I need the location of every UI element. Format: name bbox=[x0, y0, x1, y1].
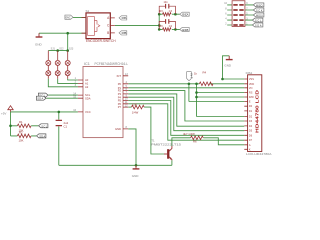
svg-text:K: K bbox=[249, 148, 251, 151]
resistor R7 10K (SCL pullup) bbox=[17, 120, 31, 132]
svg-text:D7: D7 bbox=[249, 139, 253, 142]
svg-text:ROTA: ROTA bbox=[122, 17, 127, 20]
wire encoder lower-left to GND rail bbox=[39, 32, 86, 34]
svg-text:10K: 10K bbox=[19, 139, 24, 143]
wire P4 to LCD D6 bbox=[128, 97, 244, 131]
junction RC1 left bbox=[158, 13, 161, 16]
junction jumper rail col2 bbox=[56, 49, 59, 52]
svg-text:1/4W: 1/4W bbox=[132, 111, 139, 115]
wire encoder C to RC filters bbox=[115, 24, 159, 26]
solder jumper SJ2 bbox=[55, 48, 64, 79]
wire SDA flag to IC bbox=[47, 97, 78, 99]
transistor T1 PMBT2222 bbox=[151, 139, 182, 161]
wire P5 to LCD D6 bbox=[128, 101, 244, 136]
wire to LCD RS bbox=[197, 92, 245, 94]
junction +5V / R7 bbox=[9, 125, 12, 128]
resistor R5 22R (on P7 line) bbox=[132, 102, 145, 114]
RC filter 1: resistor R3 bbox=[160, 10, 172, 16]
wire +5V to IC VCC bbox=[11, 111, 78, 113]
solder jumper SJ1 bbox=[46, 48, 56, 79]
svg-text:D2: D2 bbox=[249, 116, 253, 119]
wire pullup R7 row bbox=[11, 125, 39, 127]
wire pullup R8 row bbox=[11, 135, 37, 137]
svg-text:VSS: VSS bbox=[249, 78, 254, 81]
svg-text:+5V: +5V bbox=[1, 111, 6, 115]
svg-text:C4: C4 bbox=[169, 25, 173, 28]
svg-text:R6: R6 bbox=[193, 139, 197, 143]
wire pinhead right stubs bbox=[245, 5, 254, 25]
wire ground rail bottom bbox=[59, 164, 172, 166]
net flag pinhead 2 bbox=[253, 8, 264, 13]
RC filter 2: capacitor C4 bbox=[159, 19, 175, 29]
wire jumper col3 to IC A0 bbox=[68, 79, 78, 80]
svg-text:VO: VO bbox=[249, 87, 253, 90]
svg-text:IC1: IC1 bbox=[84, 62, 90, 66]
junction RW tap bbox=[195, 96, 198, 99]
svg-text:R1: R1 bbox=[19, 120, 23, 124]
svg-text:R/W: R/W bbox=[249, 96, 255, 99]
wire R6 to LCD A bbox=[203, 138, 244, 145]
net flag pinhead 5 bbox=[252, 23, 263, 28]
wire to LCD RW bbox=[197, 96, 245, 98]
svg-text:A1: A1 bbox=[85, 82, 89, 86]
junction VCC / C1 bbox=[58, 111, 61, 114]
junction jumper rail col3 bbox=[66, 49, 69, 52]
wire collector up to R6 row bbox=[172, 138, 191, 146]
wire jumper col1 to IC A2 bbox=[48, 79, 78, 87]
svg-text:INT: INT bbox=[117, 74, 122, 78]
svg-text:E: E bbox=[249, 101, 251, 104]
svg-text:4: 4 bbox=[225, 17, 227, 20]
junction P0 / RS-RW vertical bbox=[195, 83, 198, 86]
resistor R6 4k7 (backlight) bbox=[183, 132, 203, 143]
svg-text:6: 6 bbox=[225, 12, 227, 15]
wire +5V vertical bbox=[10, 112, 12, 136]
svg-text:A: A bbox=[249, 144, 251, 147]
svg-text:DIS1: DIS1 bbox=[246, 71, 253, 75]
svg-text:SDA: SDA bbox=[255, 25, 262, 28]
svg-text:PCF8574ADWRCH16-L: PCF8574ADWRCH16-L bbox=[95, 62, 129, 66]
junction gnd rail / IC GND bbox=[135, 164, 138, 167]
svg-text:D4: D4 bbox=[249, 125, 253, 128]
wire P6 to LCD D7 bbox=[128, 104, 244, 140]
svg-text:SJ2: SJ2 bbox=[59, 48, 64, 51]
net flag RC1 output bbox=[180, 12, 189, 17]
wire P1 to LCD VO bbox=[128, 87, 244, 89]
ground GND1 (encoder common) bbox=[35, 33, 43, 46]
resistor R4 1k (on P0 line) bbox=[194, 71, 213, 86]
svg-text:ENCA: ENCA bbox=[182, 13, 188, 17]
wire emitter to ground rail bbox=[171, 160, 173, 165]
wire drop from encoder wire to jumper rail bbox=[67, 33, 69, 50]
svg-text:SDA: SDA bbox=[39, 134, 45, 138]
wire C1 leads bbox=[58, 112, 60, 165]
wire encoder pin A to flag bbox=[73, 17, 86, 19]
wire to LCD E bbox=[189, 101, 244, 103]
svg-text:C3: C3 bbox=[169, 10, 173, 13]
junction P0 / INT flag bbox=[188, 83, 191, 86]
svg-text:GND: GND bbox=[115, 127, 121, 131]
svg-text:PMBT2222LT15: PMBT2222LT15 bbox=[151, 142, 182, 146]
svg-text:ROTB: ROTB bbox=[122, 32, 127, 35]
svg-text:S1: S1 bbox=[86, 9, 90, 13]
svg-text:A0: A0 bbox=[85, 78, 89, 82]
junction VSS / GND2 bbox=[221, 78, 224, 81]
svg-text:GND: GND bbox=[132, 174, 140, 178]
wire RC1 row bbox=[159, 13, 180, 15]
LCD connector DIS1 bbox=[244, 71, 271, 156]
svg-text:P0: P0 bbox=[118, 82, 122, 86]
junction encoder gnd wire / jumper drop bbox=[66, 32, 69, 35]
svg-text:INT: INT bbox=[189, 73, 193, 79]
svg-text:R2: R2 bbox=[19, 131, 23, 135]
svg-text:B: B bbox=[107, 31, 109, 35]
wire pinhead left stubs bbox=[227, 5, 232, 25]
svg-text:D3: D3 bbox=[249, 120, 253, 123]
wire jumper top rail bbox=[48, 50, 67, 52]
net flag pullup SCL bbox=[39, 124, 48, 129]
wire R5 to transistor base bbox=[144, 107, 164, 154]
svg-text:D5: D5 bbox=[249, 129, 253, 132]
wire P0 to R4 to LCD VDD bbox=[128, 83, 244, 85]
net flag pinhead 4 bbox=[252, 18, 263, 23]
ground GND3 (main rail) bbox=[132, 165, 140, 178]
wire IC GND pin to rail bbox=[128, 129, 136, 165]
net flag INT (vertical, on P0 node) bbox=[187, 72, 194, 81]
svg-text:GND: GND bbox=[35, 43, 43, 47]
svg-text:LCD-HD44780A: LCD-HD44780A bbox=[246, 152, 272, 156]
wire jumper col2 to IC A1 bbox=[58, 79, 78, 84]
svg-text:SJ1: SJ1 bbox=[51, 48, 56, 51]
svg-text:SDA: SDA bbox=[37, 97, 43, 101]
svg-text:SJ3: SJ3 bbox=[69, 48, 74, 51]
svg-text:P7: P7 bbox=[118, 105, 122, 109]
svg-text:10: 10 bbox=[224, 2, 227, 5]
svg-text:D0: D0 bbox=[249, 105, 253, 108]
wire RC left vertical bbox=[158, 14, 160, 29]
svg-text:HD44780 LCD: HD44780 LCD bbox=[255, 90, 260, 133]
junction RC vertical / encoder C bbox=[158, 24, 161, 27]
net flag SCL bbox=[38, 93, 48, 98]
svg-text:MOSI: MOSI bbox=[256, 15, 263, 18]
svg-text:4k7 1/4W: 4k7 1/4W bbox=[183, 132, 195, 136]
wire to LCD D2 bbox=[197, 116, 245, 118]
net flag encoder A bbox=[119, 16, 127, 20]
wire RC2 row bbox=[159, 28, 180, 30]
ground GND2 (near LCD top) bbox=[224, 56, 232, 68]
svg-text:2: 2 bbox=[225, 22, 227, 25]
svg-text:C1: C1 bbox=[64, 125, 68, 129]
svg-text:MISO: MISO bbox=[256, 4, 263, 7]
net flag pullup SDA bbox=[37, 134, 46, 139]
svg-text:D1: D1 bbox=[249, 110, 253, 113]
svg-text:10n: 10n bbox=[164, 1, 169, 4]
svg-text:VCC: VCC bbox=[85, 110, 91, 114]
wire vertical to E bbox=[188, 84, 190, 102]
junction RC1 right cap lead bbox=[174, 13, 177, 16]
net flag encoder left bbox=[65, 15, 73, 20]
solder jumper SJ3 bbox=[65, 48, 74, 79]
junction RS tap bbox=[195, 91, 198, 94]
wire vertical RS RW D2 bbox=[196, 84, 198, 117]
wire P7 stub to R5 bbox=[128, 106, 131, 108]
svg-text:SCK: SCK bbox=[256, 10, 263, 13]
net flag SDA bbox=[36, 96, 46, 101]
svg-text:1k: 1k bbox=[194, 72, 198, 76]
svg-text:SCL: SCL bbox=[41, 124, 48, 128]
resistor R8 10K (SDA pullup) bbox=[17, 131, 31, 143]
svg-text:22R: 22R bbox=[132, 102, 137, 106]
svg-text:C: C bbox=[107, 24, 110, 28]
net flag pinhead 3 bbox=[253, 13, 264, 18]
wire SCL flag to IC bbox=[49, 94, 78, 96]
junction RC2 right cap lead bbox=[174, 28, 177, 31]
svg-text:RS: RS bbox=[249, 92, 253, 95]
svg-text:R3: R3 bbox=[160, 10, 164, 13]
svg-text:D6: D6 bbox=[249, 134, 253, 137]
RC filter 2: resistor R9 bbox=[160, 25, 172, 31]
IC U1 PCF8574 bbox=[73, 62, 128, 137]
net flag pinhead 1 bbox=[253, 3, 264, 8]
svg-text:GND: GND bbox=[224, 63, 232, 67]
svg-text:A2: A2 bbox=[85, 85, 89, 89]
wire VSS junction up to GND2 bbox=[223, 56, 230, 79]
net flag encoder B bbox=[119, 31, 127, 35]
pinhead JP1 2x5 bbox=[224, 1, 248, 27]
power +5V symbol bbox=[1, 106, 13, 116]
svg-text:SCL: SCL bbox=[255, 20, 262, 23]
svg-text:R9: R9 bbox=[160, 25, 164, 28]
capacitor C1 2u2 bbox=[56, 120, 69, 128]
svg-text:SDA: SDA bbox=[85, 96, 91, 100]
junction RC2 left bbox=[158, 28, 161, 31]
encoder S1 bbox=[82, 9, 117, 43]
wire P3 to LCD D5 bbox=[128, 94, 244, 126]
svg-text:VDD: VDD bbox=[249, 83, 254, 86]
svg-text:ENCODER-SWITCH: ENCODER-SWITCH bbox=[86, 39, 116, 43]
svg-text:ENCB: ENCB bbox=[182, 28, 188, 32]
svg-text:8: 8 bbox=[225, 7, 227, 10]
RC filter 1: capacitor C3 bbox=[159, 1, 175, 14]
svg-text:ENC: ENC bbox=[66, 17, 71, 20]
net flag RC2 output bbox=[180, 27, 189, 32]
svg-text:R4: R4 bbox=[203, 71, 207, 75]
wire VSS row to LCD bbox=[223, 78, 245, 80]
wire P2 to LCD D4 bbox=[128, 91, 244, 121]
